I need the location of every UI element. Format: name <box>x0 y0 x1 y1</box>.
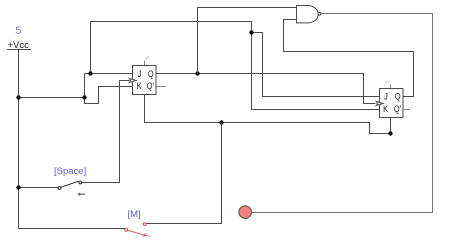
junction dot Q1 <box>195 71 199 75</box>
wire clock1 from Space switch <box>82 81 130 183</box>
flip-flop U3 JK FF2 <box>376 89 403 118</box>
junction dot FF2 reset <box>388 131 392 135</box>
svg-text:J: J <box>384 91 388 102</box>
svg-text:Q: Q <box>148 68 154 79</box>
svg-text:Q': Q' <box>147 80 154 91</box>
wire Vcc vertical rail <box>18 50 20 229</box>
junction dot Vcc top branch <box>249 30 253 34</box>
label FF2 preset smudge <box>385 81 390 84</box>
wire Vcc horizontal branch <box>19 97 85 99</box>
wire J2 input <box>252 33 380 97</box>
svg-text:5: 5 <box>15 25 21 37</box>
power +Vcc <box>7 40 31 51</box>
wire Q1 to NAND input A <box>198 8 297 74</box>
wire Space switch left <box>19 187 59 189</box>
wire NAND output to probe <box>252 14 433 213</box>
junction dot reset line <box>219 120 223 124</box>
svg-text:[Space]: [Space] <box>54 166 86 177</box>
svg-text:K: K <box>383 103 388 114</box>
probe lamp indicator <box>239 206 251 218</box>
switch M <box>125 209 151 236</box>
wire Vcc bottom to M switch <box>19 228 126 230</box>
svg-text:J: J <box>138 68 142 79</box>
svg-text:[M]: [M] <box>128 209 141 220</box>
wire FF1 top stub <box>144 61 146 66</box>
label FF1 preset smudge <box>146 56 150 60</box>
wire J1 branch <box>85 22 252 74</box>
wire Q'2 stub <box>403 109 410 111</box>
wire FF2 top stub <box>390 84 392 88</box>
svg-text:Q: Q <box>395 91 401 102</box>
svg-text:Q': Q' <box>394 103 401 114</box>
wire FF2 bottom pin <box>390 118 392 134</box>
flip-flop U2 JK FF1 <box>129 66 156 95</box>
switch Space <box>54 166 86 196</box>
wire reset run FF1 bottom <box>145 95 391 134</box>
wire M switch to reset <box>146 123 222 224</box>
wire K2 input <box>252 33 380 110</box>
svg-text:K: K <box>137 80 142 91</box>
junction dot Space branch <box>16 185 20 189</box>
junction dot Vcc rail <box>16 95 20 99</box>
wire J1 input <box>91 73 133 75</box>
junction dot J1 <box>88 71 92 75</box>
wire Q2 to NAND input B <box>284 20 414 97</box>
wire K1 staircase <box>85 74 133 104</box>
junction dot staircase <box>82 95 86 99</box>
op-amp U1 NAND gate <box>297 6 321 23</box>
wire Q1 to clock2 <box>156 74 376 104</box>
wire Q'1 stub <box>156 86 166 88</box>
